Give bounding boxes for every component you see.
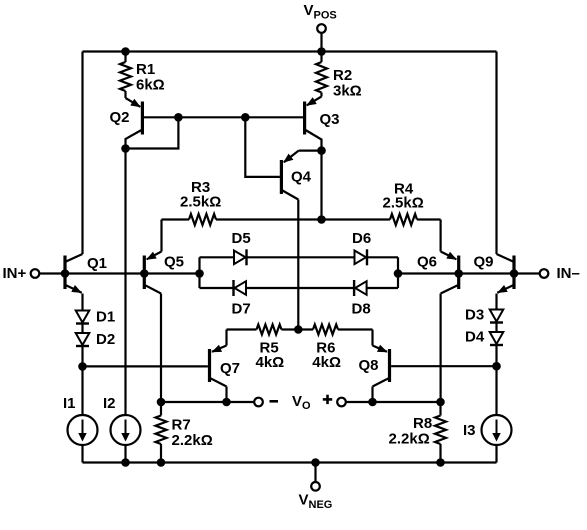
wire bottom diode row right [367,287,398,289]
diode D2 [76,333,90,345]
wire Q7 collector down [225,387,227,403]
svg-text:I3: I3 [463,422,476,439]
wire D1 to D2 [81,324,83,334]
junction Q6 collector / R8 [436,398,445,407]
svg-text:2.5kΩ: 2.5kΩ [383,195,424,212]
wire D4 to junction [495,345,497,366]
terminal IN+ [31,269,40,278]
junction R7 on bottom rail [157,458,166,467]
junction Q8 collector [368,398,377,407]
wire top rail [83,50,497,52]
resistor R7 [156,416,167,445]
wire VO+ line [346,401,441,403]
terminal VPOS [317,24,326,33]
svg-text:2.2kΩ: 2.2kΩ [389,431,430,448]
wire bottom diode row middle [246,287,354,289]
svg-text:2.2kΩ: 2.2kΩ [172,432,213,449]
wire Q5 collector down [160,294,162,403]
svg-text:D6: D6 [352,230,371,247]
svg-text:D1: D1 [96,309,115,326]
wire R3 to R4 [216,218,390,220]
transistor Q9 collector diagonal [497,254,514,262]
junction R3-R4 row center [317,215,326,224]
terminal IN- [540,269,549,278]
svg-text:Q6: Q6 [417,254,437,271]
wire R3 left end [162,218,190,220]
svg-text:IN+: IN+ [3,265,27,282]
svg-text:2.5kΩ: 2.5kΩ [180,194,221,211]
svg-text:D7: D7 [232,301,251,318]
transistor Q8 emitter diagonal [373,346,388,352]
transistor Q6 bar [457,256,460,290]
junction I2 on bottom rail [121,458,130,467]
junction R8 on bottom rail [436,458,445,467]
current source I2 [111,415,141,445]
transistor Q7 emitter arrow [211,345,222,353]
svg-text:Q3: Q3 [320,111,340,128]
diode D1 [76,311,90,323]
terminal VNEG [311,482,320,491]
wire top diode row right [367,256,398,258]
wire I2 to bottom rail [124,445,126,463]
wire Q3 collector down to R3-R4 row [320,151,322,220]
resistor R5 [257,325,282,335]
transistor Q9 emitter diagonal [497,285,513,293]
junction Q7 collector [222,398,231,407]
wire R4 down to Q6 emitter [440,220,442,252]
wire Q1 emitter to D1 [81,294,83,311]
current source I3 [482,415,512,445]
svg-text:D8: D8 [352,301,371,318]
wire Q9 collector to top rail [495,52,497,255]
wire Q2 collector down to I2 [124,149,126,416]
transistor Q1 bar [63,256,66,290]
diode D7 [235,281,247,295]
current source I1 [68,415,98,445]
wire VO- line [161,401,254,403]
wire junction to I3 [495,366,497,415]
wire R5 to R6 [282,328,314,330]
terminal VO- [254,398,263,407]
svg-text:Q4: Q4 [291,169,312,186]
wire top diode row middle [247,256,355,258]
svg-text:R8: R8 [413,415,432,432]
diode D8 [355,281,367,295]
wire D2 to junction [81,346,83,366]
transistor Q9 emitter arrow [497,285,508,293]
transistor Q1 collector diagonal [66,254,83,262]
wire bridge right vertical [397,257,399,288]
svg-text:Q8: Q8 [359,357,379,374]
transistor Q4 bar [280,160,283,194]
transistor Q8 collector diagonal [373,378,389,386]
transistor Q2 collector diagonal [126,130,142,149]
junction Q3 collector / Q4 emitter [317,146,326,155]
wire Q8 collector down [371,387,373,403]
svg-text:Q7: Q7 [220,360,240,377]
transistor Q4 emitter arrow [283,154,293,163]
junction base tie right [241,113,250,122]
junction Q1 base [61,269,70,278]
svg-text:R1: R1 [136,61,155,78]
transistor Q7 collector diagonal [211,378,227,386]
wire VO+ node to R8 [439,402,441,416]
svg-text:6kΩ: 6kΩ [136,77,165,94]
resistor R1 [120,62,131,91]
wire R7 to bottom rail [160,444,162,463]
wire Q4 collector down to R5-R6 center [297,200,299,330]
wire bridge left vertical [198,257,200,288]
transistor Q9 bar [512,256,515,290]
wire Q9 emitter to D3 [495,294,497,310]
transistor Q1 emitter diagonal [66,285,82,293]
svg-text:D4: D4 [465,329,485,346]
junction Q5 base [140,269,149,278]
junction Q2 collector [121,144,130,153]
transistor Q3 collector diagonal [306,130,322,151]
wire IN- base line [398,272,540,274]
transistor Q5 bar [143,256,146,290]
wire R5 left end [227,328,257,330]
wire R2 to Q3 emitter [320,93,322,97]
wire I1 to bottom rail [81,445,83,463]
resistor R4 [390,214,417,225]
wire bottom diode row left [200,287,234,289]
wire R6 down to Q8 emitter [371,330,373,346]
diode D4 [490,332,504,344]
wire IN+ base line [40,272,200,274]
svg-text:Q2: Q2 [110,109,130,126]
transistor Q8 bar [388,349,391,382]
wire junction to I1 [81,366,83,415]
transistor Q4 emitter wire [299,150,322,152]
transistor Q2 emitter diagonal [126,98,141,107]
terminal VO+ [337,398,346,407]
wire R4 right end [417,218,441,220]
wire R3 down to Q5 emitter [160,220,162,252]
transistor Q4 collector diagonal [283,191,299,200]
svg-text:3kΩ: 3kΩ [333,83,362,100]
transistor Q6 emitter diagonal [441,252,457,260]
wire rail to R2 [320,52,322,63]
junction Q5 collector / R7 [157,398,166,407]
transistor Q7 emitter diagonal [212,346,227,352]
wire Q7 base line [83,365,208,367]
diode D3 [490,310,504,322]
wire bottom rail [83,461,497,463]
transistor Q3 emitter arrow [306,97,317,105]
wire Q8 base line [391,365,496,367]
wire R1 to Q2 emitter [124,91,126,98]
wire I3 to bottom rail [495,445,497,463]
transistor Q1 emitter arrow [71,285,82,293]
wire rail to R1 [124,52,126,63]
junction D4 / Q8 base / I3 [492,362,501,371]
svg-text:R7: R7 [172,417,191,434]
wire VO- node to R7 [160,402,162,416]
wire Q4 base from base tie [245,117,280,177]
resistor R3 [189,214,216,225]
junction base tie left [174,113,183,122]
svg-text:IN–: IN– [557,265,580,282]
resistor R6 [313,325,338,335]
svg-text:Q9: Q9 [474,254,494,271]
wire Q6 collector down [440,294,442,403]
junction Q9 base [510,269,519,278]
svg-text:Q5: Q5 [164,254,184,271]
junction bridge right node [394,269,403,278]
transistor Q8 emitter arrow [377,345,388,353]
svg-text:I2: I2 [103,395,116,412]
svg-text:D5: D5 [232,230,251,247]
transistor Q3 emitter diagonal [307,97,322,106]
diode D6 [355,251,367,265]
transistor Q4 emitter diagonal [284,151,299,163]
label minus sign [270,400,279,403]
svg-text:D2: D2 [96,331,115,348]
resistor R2 [316,62,327,93]
svg-text:D3: D3 [465,307,484,324]
junction R5-R6 center [294,325,303,334]
transistor Q3 bar [303,102,306,135]
svg-text:R2: R2 [333,67,352,84]
junction D2 / Q7 base / I1 [78,362,87,371]
wire R6 right end [338,328,373,330]
transistor Q2 emitter arrow [130,99,141,107]
transistor Q6 collector diagonal [441,285,458,293]
wire R8 to bottom rail [439,444,441,463]
wire R5 down to Q7 emitter [225,330,227,346]
resistor R8 [435,416,446,445]
junction R1 on rail [121,47,130,56]
transistor Q5 collector diagonal [145,285,161,293]
wire top diode row left [200,256,235,258]
wire VNEG [314,463,316,483]
junction bridge left node [195,269,204,278]
wire D3 to D4 [495,323,497,333]
transistor Q5 emitter arrow [146,252,157,260]
svg-text:Q1: Q1 [87,255,107,272]
wire Q2 base to Q3 base [144,116,303,118]
transistor Q7 bar [208,349,211,382]
wire Q1 collector to top rail [81,52,83,255]
diode D5 [234,251,246,265]
transistor Q6 emitter arrow [446,252,457,260]
wire base tie down to Q2 collector [126,117,179,148]
svg-text:4kΩ: 4kΩ [312,354,341,371]
junction VPOS on rail [317,47,326,56]
svg-text:4kΩ: 4kΩ [256,354,285,371]
junction Q6 base [454,269,463,278]
svg-text:I1: I1 [63,395,76,412]
wire VPOS to rail [320,33,322,52]
transistor Q2 bar [141,102,144,135]
junction VNEG on bottom rail [311,458,320,467]
label plus sign [323,395,332,404]
transistor Q5 emitter diagonal [147,252,162,260]
